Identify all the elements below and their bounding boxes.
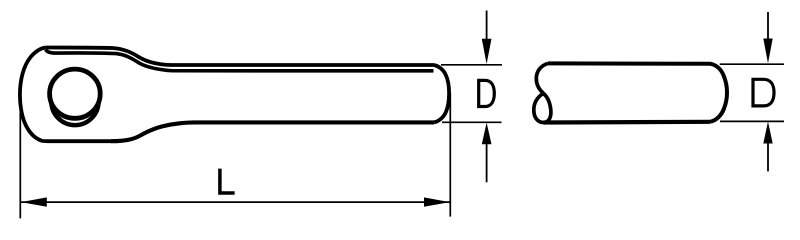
D dim extension line top (right view): [720, 63, 784, 65]
D top arrowhead (left view): [482, 39, 492, 64]
L extension line left: [19, 108, 21, 218]
bottom neck line to rod: [111, 122, 434, 141]
D bottom arrow line (left view): [486, 143, 488, 182]
D top arrowhead (right view): [763, 39, 772, 64]
eye head top outer line and neck to rod: [46, 48, 435, 66]
D dim extension line top (left view): [441, 64, 502, 66]
eye head top inner line: [46, 50, 434, 71]
eye hole circle: [50, 69, 101, 118]
eye hole chamfer arc: [51, 102, 98, 126]
D dim extension line bottom (left view): [442, 121, 502, 123]
label D (left view): [477, 80, 494, 106]
right view rod bottom edge: [544, 120, 711, 125]
eye head left outline: [20, 48, 112, 142]
right view rod end cap: [710, 64, 727, 122]
D dim extension line bottom (right view): [720, 120, 784, 122]
right view break S-curve: [536, 63, 548, 93]
D bottom arrowhead (right view): [763, 122, 772, 144]
label D (right view): [751, 79, 774, 106]
right view break loop: [534, 94, 551, 123]
D top arrow line (left view): [486, 11, 488, 41]
L arrowhead left: [21, 197, 47, 206]
rod end cap left view: [434, 65, 449, 122]
D bottom arrowhead (left view): [482, 123, 492, 145]
right view rod top edge: [548, 61, 711, 65]
D bottom arrow line (right view): [767, 143, 769, 172]
L arrowhead right: [424, 197, 450, 206]
label L: [220, 169, 235, 193]
L dimension line: [21, 201, 450, 203]
D top arrow line (right view): [767, 12, 769, 40]
L extension line right: [449, 93, 451, 217]
